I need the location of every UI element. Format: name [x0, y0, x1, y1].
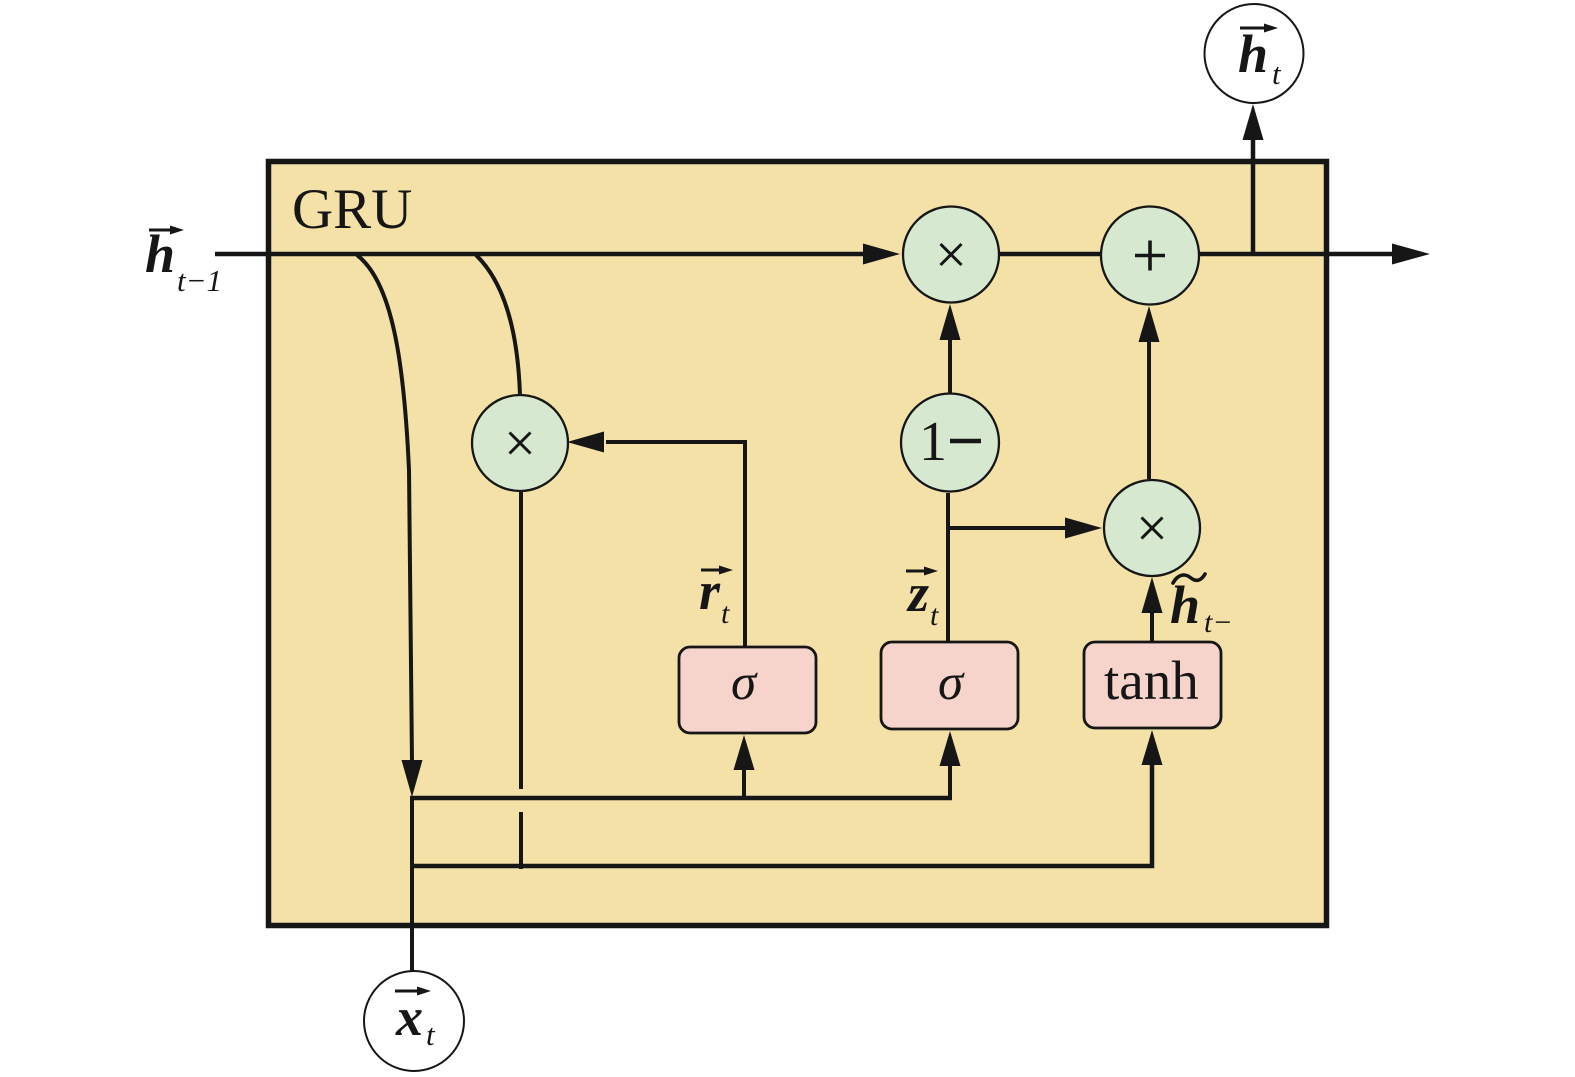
wire from M3 up to plus gate P1 [1147, 339, 1151, 479]
svg-text:1: 1 [919, 411, 947, 473]
wire r(t) feedback from sigma S1 up and left to M2 [606, 442, 745, 647]
wire arrowhead into h(t) circle [1243, 104, 1264, 140]
svg-text:t: t [930, 599, 939, 632]
wire riser to h(t) output circle [1251, 138, 1256, 254]
wire arrowhead into multiply gate M1 [863, 244, 900, 265]
reset multiply gate M2 [472, 395, 568, 491]
wire arrowhead into P1 bottom [1139, 306, 1160, 342]
sigma box S1 (reset gate) [679, 647, 816, 733]
wire h line continuation through gates [951, 252, 1394, 257]
wire arrowhead into M1 bottom [940, 304, 961, 340]
wire output arrowhead right [1392, 244, 1430, 265]
svg-text:t−: t− [1204, 606, 1233, 639]
svg-text:tanh: tanh [1104, 650, 1199, 711]
wire arrowhead into S1 [734, 735, 755, 770]
GRU cell box [269, 162, 1327, 926]
svg-text:GRU: GRU [292, 178, 412, 241]
node x(t) input circle [364, 971, 464, 1071]
svg-text:h: h [1170, 575, 1200, 635]
wire first bottom bus to sigma gates [410, 796, 952, 801]
wire branch up to sigma S2 [948, 763, 952, 798]
wire curve from h line down into reset multiply gate M2 [476, 255, 520, 396]
wire h(t-1) main horizontal line [215, 252, 864, 257]
svg-text:σ: σ [731, 655, 758, 711]
candidate multiply gate M3 [1104, 480, 1200, 576]
wire arrowhead into S2 [940, 731, 961, 766]
svg-text:t: t [426, 1017, 436, 1052]
wire from 1-minus gate up to M1 [948, 337, 952, 393]
wire z(t) vertical from sigma S2 to 1-minus gate [946, 493, 950, 641]
wire from M2 down (with hop gap over first bus) [519, 490, 523, 789]
svg-text:σ: σ [938, 655, 965, 711]
wire curve from h line down to x(t) junction [357, 255, 412, 762]
one-minus gate [901, 394, 999, 492]
wire z(t) branch to multiply gate M3 [946, 526, 1066, 530]
wire arrowhead into M2 [567, 432, 604, 453]
svg-text:t: t [1272, 56, 1282, 91]
node h(t) output circle [1205, 4, 1304, 103]
svg-text:t: t [721, 597, 730, 630]
wire hop continuation to second bus [519, 812, 523, 869]
sigma box S2 (update gate) [881, 642, 1018, 729]
wire arrowhead into tanh [1142, 730, 1163, 765]
svg-text:h: h [1238, 24, 1268, 84]
wire arrowhead down at junction [402, 760, 423, 797]
wire second bottom bus to tanh [410, 762, 1152, 866]
wire tanh output up to M3 [1150, 610, 1154, 641]
svg-text:x: x [395, 987, 423, 1047]
svg-text:t−1: t−1 [177, 263, 222, 298]
wire x(t) riser from input circle [410, 796, 414, 972]
wire arrowhead into M3 [1065, 518, 1102, 539]
wire branch up to sigma S1 [742, 768, 746, 798]
wire arrowhead into M3 bottom [1142, 577, 1163, 613]
tanh box [1084, 642, 1221, 728]
multiply gate M1 (update gate product) [903, 207, 999, 303]
plus gate P1 [1101, 207, 1199, 305]
